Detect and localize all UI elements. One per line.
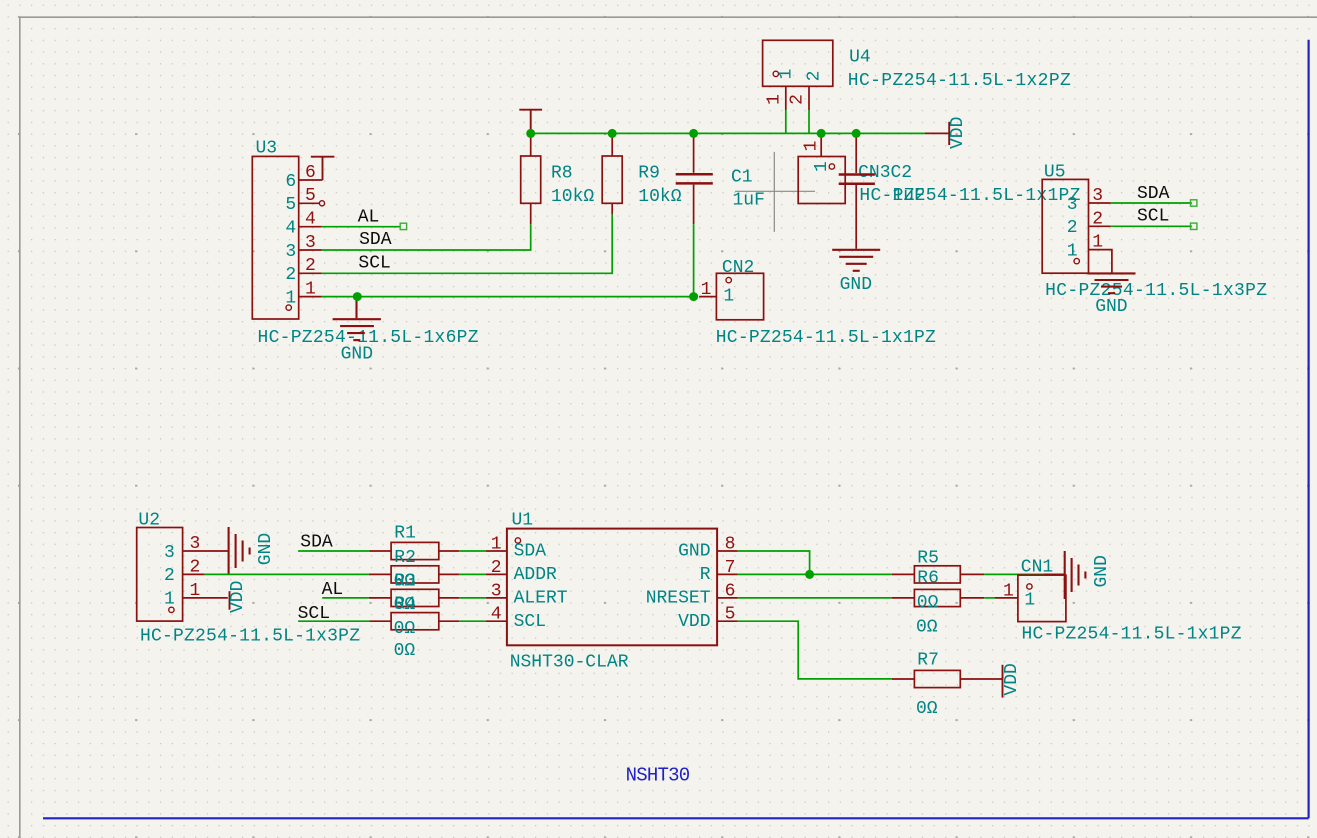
svg-text:VDD: VDD [1002, 663, 1022, 695]
resistor R3 [369, 589, 459, 606]
svg-text:1: 1 [723, 286, 734, 306]
ground symbol rotated right of CN1 [1065, 551, 1086, 599]
wire U1 pin 6 to R6 [738, 597, 892, 599]
resistor R6 [892, 589, 984, 606]
svg-text:R9: R9 [638, 164, 660, 184]
svg-text:VDD: VDD [678, 612, 710, 632]
svg-text:1: 1 [190, 581, 201, 601]
svg-text:R: R [700, 565, 711, 585]
svg-text:1: 1 [491, 535, 502, 555]
svg-text:3: 3 [1067, 195, 1078, 215]
svg-text:1uF: 1uF [892, 186, 924, 206]
U2 pin 1 stub to VDD [183, 597, 228, 599]
svg-text:6: 6 [305, 163, 316, 183]
connector U3 [252, 156, 298, 319]
svg-text:VDD: VDD [228, 581, 248, 613]
svg-text:NSHT30-CLAR: NSHT30-CLAR [510, 653, 629, 673]
U2 pin 2 stub [183, 573, 205, 575]
unconnected wire-end square SCL [1191, 223, 1197, 229]
VDD T-bar vertical [948, 122, 950, 145]
U3 pin1 indicator circle [286, 305, 291, 310]
svg-text:4: 4 [285, 219, 296, 239]
wire R5 to CN1 ground [984, 573, 1044, 575]
wire SCL to R4 [298, 620, 369, 622]
svg-text:HC-PZ254-11.5L-1x3PZ: HC-PZ254-11.5L-1x3PZ [1045, 281, 1267, 301]
wire U1 pin 8 to junction [738, 551, 810, 574]
sheet blue right border line [1307, 40, 1309, 819]
svg-text:SCL: SCL [514, 612, 546, 632]
U1 pin 1 stub [486, 550, 507, 552]
svg-text:NRESET: NRESET [646, 589, 711, 609]
resistor R8 [521, 133, 541, 224]
junction at R9/bus [608, 129, 617, 138]
resistor R7 [892, 670, 1003, 687]
svg-text:U5: U5 [1044, 163, 1066, 183]
svg-text:7: 7 [725, 558, 736, 578]
U1 pin 8 stub [717, 550, 738, 552]
svg-text:HC-PZ254-11.5L-1x2PZ: HC-PZ254-11.5L-1x2PZ [848, 71, 1071, 91]
svg-text:10kΩ: 10kΩ [638, 187, 681, 207]
wire AL from U3 pin 4 [322, 226, 401, 228]
U4 pin 2 wire to bus [808, 110, 810, 133]
junction at CN3/bus [817, 129, 826, 138]
CN2 pin 1 stub [699, 296, 716, 298]
svg-text:1: 1 [1003, 582, 1014, 602]
CN3 pin1 indicator circle [829, 164, 834, 169]
svg-text:5: 5 [305, 186, 316, 206]
svg-text:4: 4 [491, 605, 502, 625]
resistor R4 [369, 613, 459, 630]
svg-text:6: 6 [725, 581, 736, 601]
ground pin lead at CN1 [1044, 573, 1065, 575]
unconnected wire-end square SDA [1191, 200, 1197, 206]
svg-text:NSHT30: NSHT30 [626, 765, 691, 787]
U5 pin 1 stub bent to ground [1089, 250, 1112, 273]
svg-text:CN3: CN3 [858, 163, 890, 183]
svg-text:0Ω: 0Ω [394, 641, 416, 661]
svg-text:GND: GND [840, 275, 872, 295]
wire R4 to U1 pin 4 [459, 620, 486, 622]
svg-text:2: 2 [491, 558, 502, 578]
svg-text:1uF: 1uF [733, 190, 765, 210]
connector U4 [763, 40, 833, 86]
svg-text:R6: R6 [917, 569, 939, 589]
svg-text:R5: R5 [917, 548, 939, 568]
wire AL to R3 [322, 597, 369, 599]
svg-text:C2: C2 [891, 163, 913, 183]
U5 SCL wire [1111, 225, 1192, 227]
svg-text:10kΩ: 10kΩ [551, 187, 594, 207]
svg-text:2: 2 [305, 256, 316, 276]
page frame grey left line [19, 17, 21, 838]
top VDD bus wire [531, 132, 925, 134]
svg-text:3: 3 [285, 242, 296, 262]
svg-text:R2: R2 [394, 548, 416, 568]
power symbol T-bar above bus left end [519, 110, 542, 134]
wire GND row from U3 pin 1 to C1/CN2 [322, 296, 694, 298]
svg-text:SDA: SDA [514, 542, 547, 562]
U1 pin 7 stub [717, 573, 738, 575]
svg-text:3: 3 [1092, 186, 1103, 206]
CN3 pin 1 stub [820, 133, 822, 156]
svg-text:1: 1 [701, 280, 712, 300]
connector U2 [137, 528, 183, 622]
svg-text:GND: GND [1092, 555, 1112, 587]
connector CN2 [716, 273, 763, 320]
svg-text:0Ω: 0Ω [394, 619, 416, 639]
ground symbol rotated right of U2 pin 3 [229, 527, 250, 575]
wire U1 pin 7 to R5 [738, 573, 892, 575]
ground symbol below U5 pin 1 [1088, 273, 1136, 293]
VDD power symbol right of bus [925, 132, 949, 134]
connector U5 [1042, 179, 1088, 273]
svg-text:1: 1 [1024, 590, 1035, 610]
U4 pin 1 stub [785, 86, 787, 110]
svg-text:R8: R8 [551, 164, 573, 184]
svg-text:GND: GND [1095, 297, 1127, 317]
wire R3 to U1 pin 3 [459, 597, 486, 599]
junction at C1/bus [689, 129, 698, 138]
U5 pin 2 stub [1089, 225, 1111, 227]
wire SDA to R1 [298, 550, 369, 552]
wire SCL from U3 pin 2 to R9 [322, 214, 612, 273]
wire R1 to U1 pin 1 [459, 550, 486, 552]
U5 pin 3 stub [1089, 202, 1111, 204]
U3 pin 5 not-connected circle [319, 201, 324, 206]
svg-text:AL: AL [358, 207, 380, 227]
svg-text:1: 1 [1092, 233, 1103, 253]
svg-text:2: 2 [1067, 218, 1078, 238]
svg-text:1: 1 [764, 94, 784, 105]
svg-text:5: 5 [285, 195, 296, 215]
unconnected wire-end square AL [400, 223, 406, 229]
U1 pin 4 stub [486, 620, 507, 622]
svg-text:CN2: CN2 [722, 258, 754, 278]
connector CN1 [1018, 575, 1066, 622]
svg-text:U1: U1 [512, 511, 534, 531]
CN2 pin1 indicator circle [726, 277, 731, 282]
svg-text:R7: R7 [917, 650, 939, 670]
junction at C1/CN2 ground row [689, 292, 698, 301]
U1 pin 5 stub [717, 620, 738, 622]
U1 pin 6 stub [717, 597, 738, 599]
U1 pin1 indicator circle [515, 538, 520, 543]
svg-text:2: 2 [190, 557, 201, 577]
U2 pin1 indicator circle [169, 607, 174, 612]
C1 wire down to GND row [693, 224, 695, 296]
svg-text:2: 2 [804, 71, 824, 82]
svg-text:U4: U4 [849, 48, 871, 68]
ground symbol below C2 [832, 250, 880, 271]
VDD T-bar at U2 pin 1 [229, 591, 231, 610]
sheet blue bottom border line [43, 817, 1309, 819]
svg-text:2: 2 [1092, 209, 1103, 229]
svg-text:5: 5 [725, 605, 736, 625]
svg-text:3: 3 [164, 543, 175, 563]
resistor R5 [892, 566, 984, 583]
ground symbol below U3 pin 1 [333, 297, 381, 341]
U3 pin 2 stub [299, 272, 322, 274]
U4 pin1 indicator circle [773, 71, 778, 76]
svg-text:1: 1 [164, 590, 175, 610]
resistor R2 [369, 566, 459, 583]
U3 pin 4 stub [299, 226, 322, 228]
U5 pin1 indicator circle [1074, 258, 1079, 263]
svg-text:2: 2 [285, 265, 296, 285]
svg-text:U3: U3 [256, 139, 278, 159]
U3 pin 5 stub [299, 202, 320, 204]
svg-text:GND: GND [256, 533, 276, 565]
capacitor C2 [839, 133, 875, 248]
capacitor C1 [676, 133, 713, 224]
junction at C2/bus [852, 129, 861, 138]
svg-text:CN1: CN1 [1021, 558, 1053, 578]
svg-text:SCL: SCL [1137, 207, 1169, 227]
CN1 pin 1 stub [995, 597, 1018, 599]
junction pin8/pin7 net [805, 570, 814, 579]
svg-text:HC-PZ254-11.5L-1x3PZ: HC-PZ254-11.5L-1x3PZ [140, 627, 360, 647]
svg-text:C1: C1 [731, 168, 753, 188]
svg-text:0Ω: 0Ω [916, 699, 938, 719]
svg-text:1: 1 [802, 141, 822, 152]
VDD T-bar at R7 [1002, 665, 1004, 698]
svg-text:1: 1 [777, 69, 797, 80]
svg-text:GND: GND [341, 345, 373, 365]
cursor crosshair [735, 152, 815, 232]
U3 pin 3 stub [299, 249, 322, 251]
page frame grey top line [20, 16, 1317, 18]
svg-text:0Ω: 0Ω [917, 593, 939, 613]
junction at R8/bus [526, 129, 535, 138]
svg-text:ALERT: ALERT [514, 589, 568, 609]
svg-text:U2: U2 [138, 511, 160, 531]
svg-text:3: 3 [491, 581, 502, 601]
U3 pin 1 stub [299, 296, 322, 298]
svg-text:3: 3 [305, 233, 316, 253]
U1 pin 2 stub [486, 573, 507, 575]
U1 pin 3 stub [486, 597, 507, 599]
U4 pin 1 wire to bus [785, 110, 787, 133]
svg-text:HC-PZ254-11.5L-1x1PZ: HC-PZ254-11.5L-1x1PZ [716, 328, 936, 348]
wire U1 pin 5 to R7 [738, 621, 892, 679]
U5 SDA wire [1111, 202, 1192, 204]
svg-text:VDD: VDD [948, 117, 968, 149]
svg-text:SDA: SDA [300, 533, 333, 553]
svg-text:4: 4 [305, 210, 316, 230]
svg-text:8: 8 [725, 535, 736, 555]
power symbol T-bar on U3 pin 6 [311, 157, 335, 180]
resistor R9 [602, 133, 622, 214]
svg-text:0Ω: 0Ω [916, 618, 938, 638]
svg-text:3: 3 [190, 534, 201, 554]
U2 pin 2 wire to R2 [204, 573, 368, 575]
svg-text:SCL: SCL [358, 253, 390, 273]
U3 pin 6 stub [299, 179, 323, 181]
svg-text:2: 2 [788, 94, 808, 105]
svg-text:GND: GND [678, 542, 710, 562]
svg-text:R1: R1 [394, 524, 416, 544]
resistor R1 [369, 542, 459, 559]
IC U1 NSHT30-CLAR [507, 529, 717, 646]
wire R2 to U1 pin 2 [459, 573, 486, 575]
wire SDA from U3 pin 3 to R8 [322, 224, 531, 250]
junction at U3 ground wire [353, 292, 362, 301]
svg-text:6: 6 [285, 172, 296, 192]
svg-text:AL: AL [322, 580, 344, 600]
CN1 pin1 indicator circle [1027, 584, 1032, 589]
U4 pin 2 stub [808, 86, 810, 110]
U2 pin 3 stub to ground [183, 550, 228, 552]
svg-text:ADDR: ADDR [514, 565, 557, 585]
wire R6 to CN1 [984, 597, 995, 599]
svg-text:2: 2 [164, 566, 175, 586]
svg-text:SDA: SDA [359, 230, 392, 250]
svg-text:HC-PZ254-11.5L-1x1PZ: HC-PZ254-11.5L-1x1PZ [1022, 625, 1242, 645]
svg-text:1: 1 [305, 279, 316, 299]
connector CN3 [798, 157, 845, 204]
svg-text:SDA: SDA [1137, 184, 1170, 204]
